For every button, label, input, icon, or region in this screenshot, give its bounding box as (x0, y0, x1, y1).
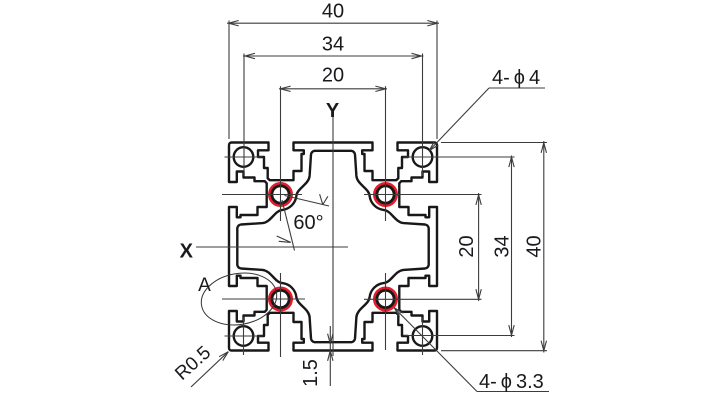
angle dimension 60 degrees (277, 194, 329, 250)
extension line bottom of 34 right / corner hole centerline (404, 335, 515, 337)
centerline node hole bottom-left vertical (280, 273, 282, 357)
centerline corner hole bottom-left horizontal (225, 335, 263, 337)
node hole phi3.3 top-left with red highlight ring (270, 184, 292, 206)
svg-text:40: 40 (322, 0, 344, 22)
extension line right of 40 top (436, 21, 438, 140)
svg-text:20: 20 (456, 235, 478, 257)
svg-text:Y: Y (326, 100, 340, 122)
svg-text:X: X (180, 241, 194, 263)
extension line top of 40 right (441, 142, 547, 144)
node hole phi3.3 bottom-right with red highlight ring (375, 288, 397, 310)
svg-text:A: A (198, 275, 211, 296)
leader label 4-phi3.3 (394, 308, 549, 392)
Y axis line (332, 117, 334, 356)
centerline corner hole bottom-left vertical (243, 317, 245, 355)
dimension 34 right (509, 156, 514, 338)
svg-text:1.5: 1.5 (300, 359, 322, 387)
profile outline (40x40 T-slot extrusion cross-section) (229, 143, 437, 351)
dimension 1.5 bottom web (328, 326, 333, 386)
svg-text:20: 20 (322, 65, 344, 87)
extension line right of 34 top / corner hole centerline (422, 54, 424, 177)
centerline corner hole top-left horizontal (225, 156, 263, 158)
svg-text:60°: 60° (293, 212, 323, 234)
dimension 20 right (476, 193, 481, 301)
centerline node hole top-left horizontal (222, 194, 302, 196)
svg-text:40: 40 (524, 235, 546, 257)
corner hole phi4 top-left (234, 147, 254, 167)
svg-text:R0.5: R0.5 (171, 342, 215, 384)
leader label 4-phi4 (429, 88, 545, 151)
dimension 34 top (243, 53, 424, 58)
svg-text:34: 34 (492, 235, 514, 257)
node hole phi3.3 bottom-left with red highlight ring (270, 288, 292, 310)
extension line left of 40 top (228, 21, 230, 140)
centerline corner hole bottom-right vertical (422, 317, 424, 355)
svg-text:4- ϕ 3.3: 4- ϕ 3.3 (479, 371, 544, 393)
extension line left of 34 top / corner hole centerline (243, 54, 245, 177)
extension line left of 20 top / node hole centerline (280, 86, 282, 221)
extension line bottom of 20 right / node hole centerline (364, 298, 482, 300)
corner hole phi4 bottom-right (413, 326, 433, 346)
dimension 40 top (227, 21, 439, 26)
corner hole phi4 top-right (413, 147, 433, 167)
X axis line (196, 246, 348, 248)
centerline node hole bottom-left horizontal (222, 298, 305, 300)
svg-text:34: 34 (322, 34, 344, 56)
centerline node hole bottom-right vertical (385, 273, 387, 350)
svg-text:4- ϕ 4: 4- ϕ 4 (492, 67, 540, 89)
node hole phi3.3 top-right with red highlight ring (375, 184, 397, 206)
extension line right of 20 top / node hole centerline (385, 86, 387, 221)
extension line top of 34 right / corner hole centerline (404, 156, 515, 158)
central cross cavity (237, 151, 428, 342)
corner hole phi4 bottom-left (234, 326, 254, 346)
dimension 20 top (279, 86, 387, 91)
extension line bottom of 40 right (441, 350, 547, 352)
dimension 40 right (541, 141, 546, 353)
leader label R0.5 (191, 352, 228, 387)
extension line top of 20 right / node hole centerline (364, 194, 482, 196)
detail ellipse A (197, 267, 281, 330)
